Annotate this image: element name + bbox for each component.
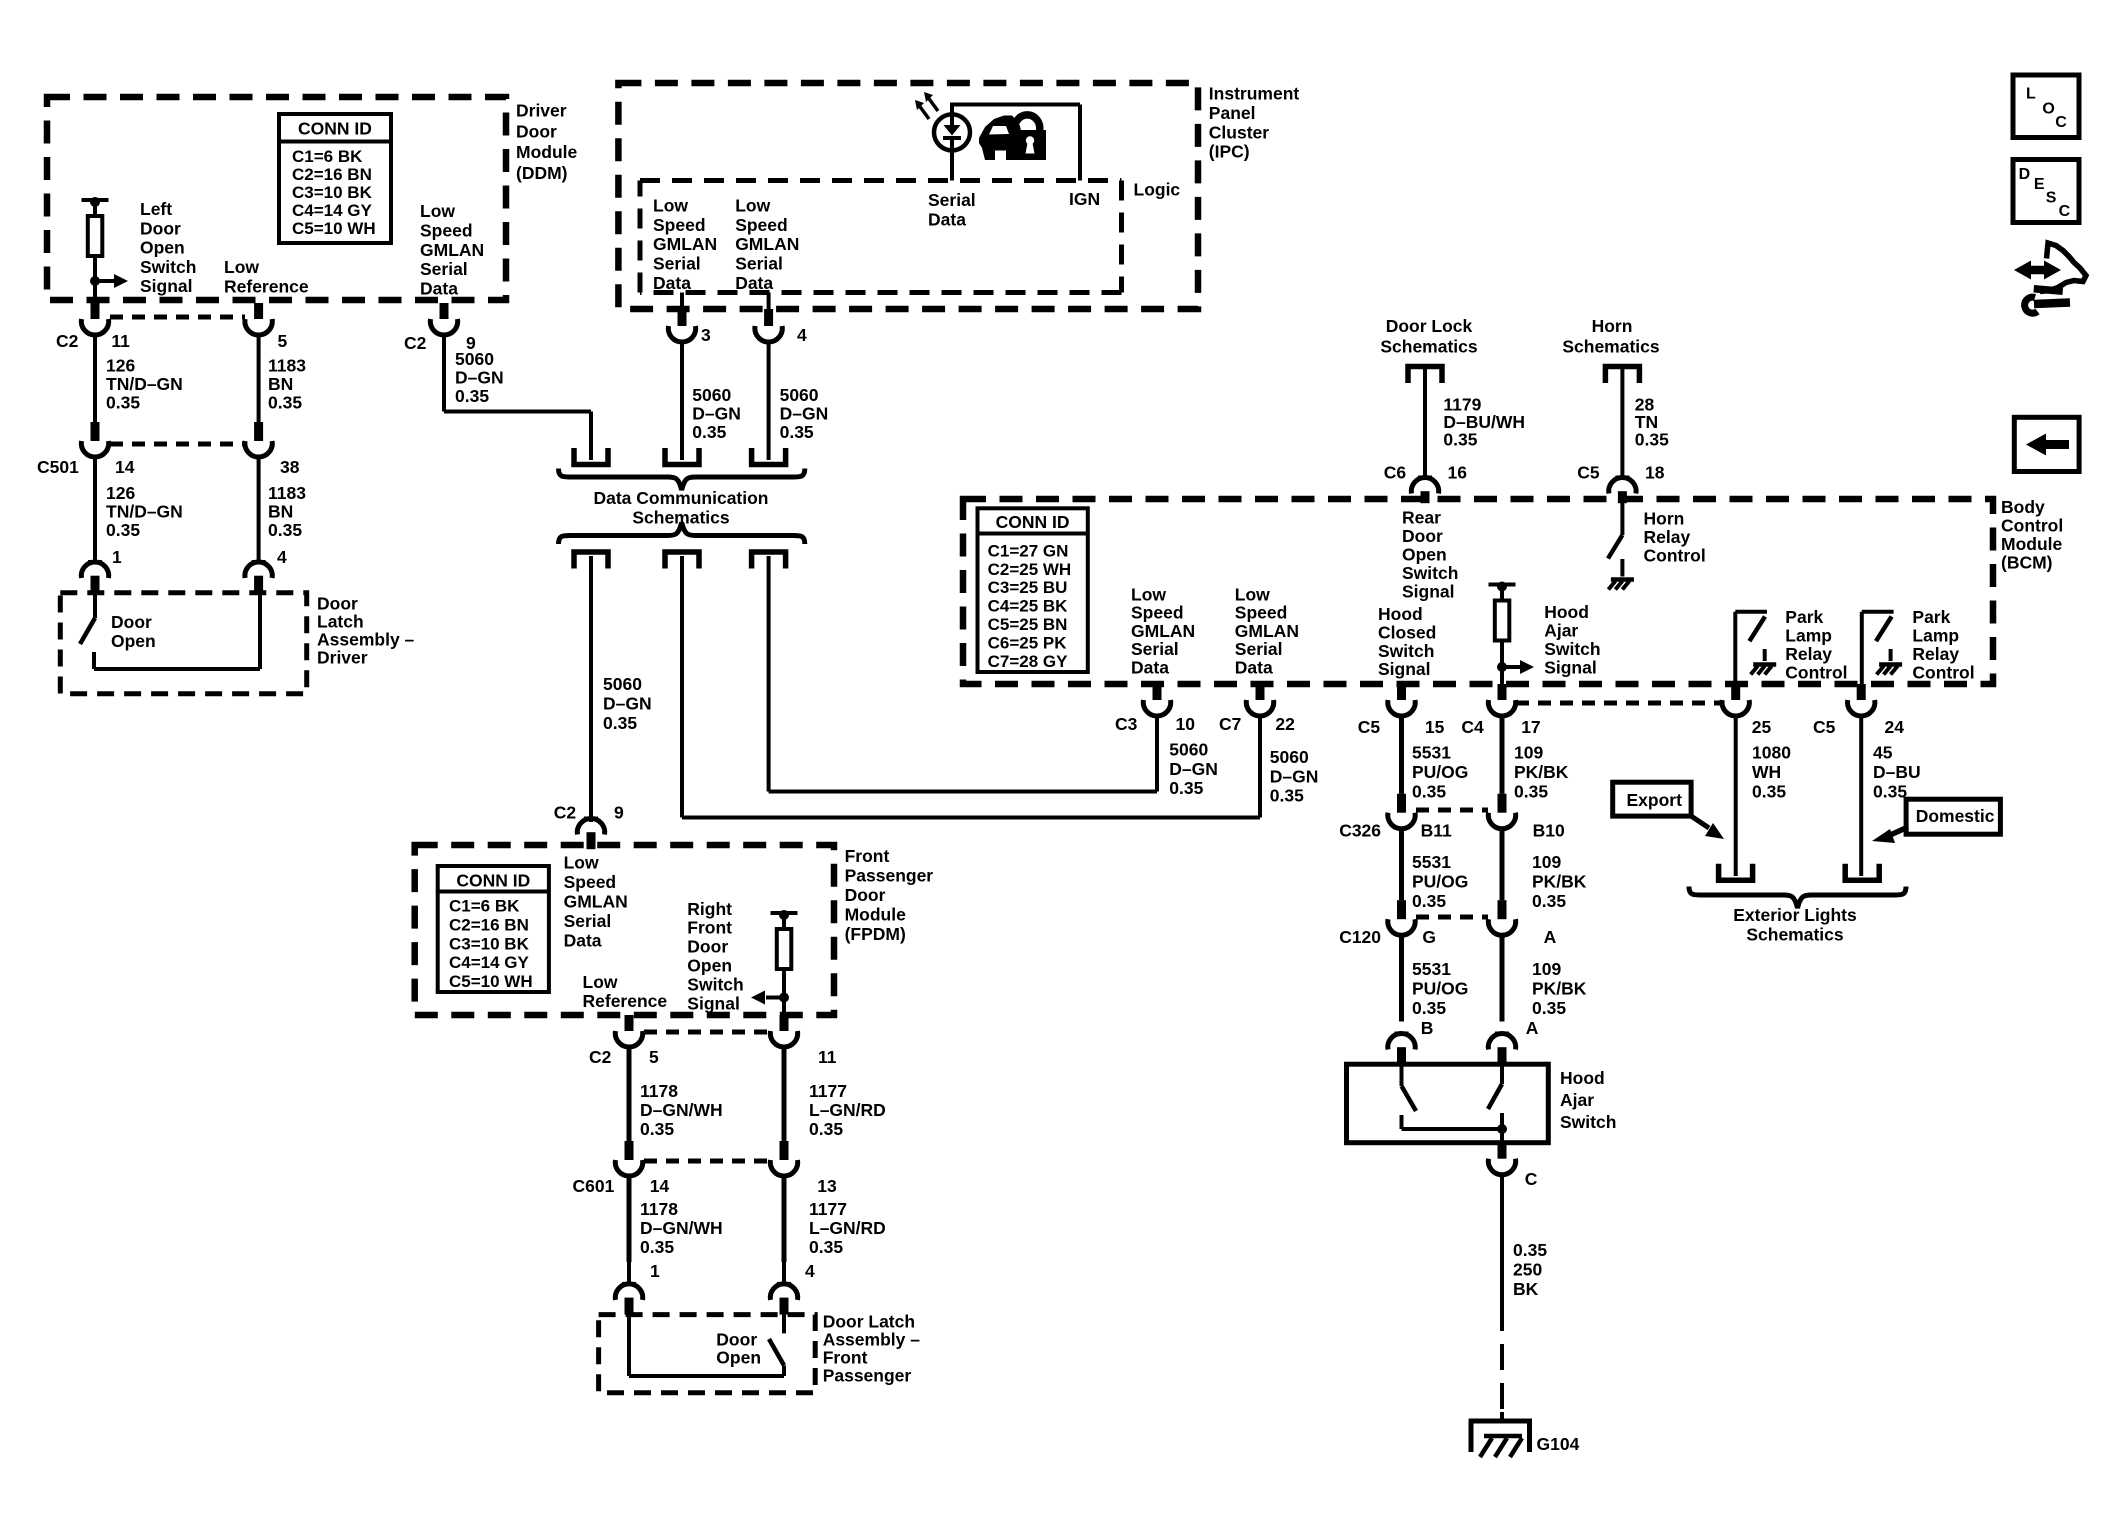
CONN ID table (BCM) — [978, 508, 1088, 672]
svg-text:C6=25 PK: C6=25 PK — [988, 633, 1068, 652]
module box: Instrument Panel Cluster (IPC) — [618, 83, 1198, 309]
svg-text:A: A — [1526, 1018, 1539, 1038]
connector C5 pin 18 (BCM) — [1615, 476, 1629, 480]
svg-text:18: 18 — [1645, 463, 1665, 483]
icon box LOC — [2013, 75, 2079, 138]
svg-text:Horn: Horn — [1592, 316, 1633, 336]
svg-text:Schematics: Schematics — [1380, 337, 1478, 357]
svg-text:15: 15 — [1425, 717, 1445, 737]
wire 1183 BN C501 to latch — [257, 457, 261, 541]
svg-text:Low: Low — [420, 201, 455, 221]
connector pin 4 (driver latch) — [252, 560, 266, 564]
svg-text:Passenger: Passenger — [823, 1365, 912, 1385]
in-line connector C601 pin 13 — [780, 1141, 789, 1160]
svg-text:0.35: 0.35 — [692, 422, 726, 442]
ground G104 — [1469, 1419, 1532, 1424]
svg-text:BN: BN — [268, 502, 293, 522]
wire bus to BCM C3 pin10 — [767, 556, 771, 792]
icon: car with lock (security indicator) — [979, 115, 1046, 160]
svg-text:Switch: Switch — [1560, 1112, 1616, 1132]
svg-text:CONN ID: CONN ID — [996, 512, 1070, 532]
svg-text:1: 1 — [650, 1261, 660, 1281]
svg-text:GMLAN: GMLAN — [735, 234, 799, 254]
off-page tab exterior 1 — [1719, 864, 1753, 881]
connector pin C (hood ajar switch) — [1498, 1143, 1507, 1159]
svg-text:0.35: 0.35 — [1169, 778, 1203, 798]
svg-text:PU/OG: PU/OG — [1412, 872, 1468, 892]
svg-text:D: D — [2019, 166, 2031, 183]
brace lower: Data Communication Schematics — [559, 523, 805, 545]
svg-text:C: C — [1525, 1169, 1538, 1189]
svg-text:Switch: Switch — [1544, 639, 1600, 659]
connector C3 pin 10 (BCM bottom) — [1153, 684, 1162, 700]
wire 250 BK to G104 — [1500, 1175, 1504, 1305]
svg-text:5531: 5531 — [1412, 852, 1451, 872]
LED indicator (security telltale) — [934, 114, 970, 150]
svg-text:Reference: Reference — [224, 276, 309, 296]
connector pin 1 (driver latch) — [88, 560, 102, 564]
svg-text:Door: Door — [140, 218, 181, 238]
wire 1080 WH to exterior lights — [1734, 716, 1738, 876]
svg-text:Low: Low — [583, 972, 618, 992]
svg-text:1183: 1183 — [268, 356, 306, 376]
svg-text:Serial: Serial — [653, 254, 701, 274]
svg-text:Serial: Serial — [735, 254, 783, 274]
svg-text:Control: Control — [1912, 663, 1974, 683]
svg-text:Export: Export — [1627, 790, 1683, 810]
dashed connector link C4 17-25 — [1516, 701, 1722, 706]
svg-text:0.35: 0.35 — [1270, 786, 1304, 806]
wire 126 TN/D-GN C501 to latch — [93, 457, 97, 541]
svg-text:(BCM): (BCM) — [2001, 553, 2053, 573]
svg-text:Door: Door — [845, 885, 886, 905]
connector C2 pin 9 (FPDM top) — [584, 817, 598, 821]
svg-text:0.35: 0.35 — [1873, 782, 1907, 802]
in-line connector C326 pin B11 — [1397, 794, 1406, 813]
svg-text:A: A — [1544, 927, 1557, 947]
svg-text:11: 11 — [111, 331, 130, 351]
svg-text:Panel: Panel — [1209, 103, 1256, 123]
wire 1177 L-GN/RD to C601 — [782, 1047, 787, 1141]
svg-text:C7: C7 — [1219, 714, 1241, 734]
svg-text:1177: 1177 — [809, 1199, 847, 1219]
svg-text:Module: Module — [845, 905, 907, 925]
svg-text:Low: Low — [653, 195, 688, 215]
svg-text:Door: Door — [687, 937, 728, 957]
svg-text:S: S — [2046, 190, 2057, 207]
svg-text:Park: Park — [1912, 607, 1950, 627]
svg-text:Low: Low — [735, 195, 770, 215]
svg-text:0.35: 0.35 — [1443, 429, 1477, 449]
svg-text:Data: Data — [564, 931, 602, 951]
svg-text:Data: Data — [1131, 658, 1169, 678]
svg-text:Exterior Lights: Exterior Lights — [1733, 905, 1857, 925]
off-page tab: Horn Schematics — [1605, 367, 1639, 384]
svg-text:Door: Door — [1402, 526, 1443, 546]
svg-text:Hood: Hood — [1544, 602, 1589, 622]
svg-text:D–GN/WH: D–GN/WH — [640, 1218, 723, 1238]
wire 109 PK/BK C326 to C120 — [1500, 829, 1505, 901]
in-line connector C601 pin 14 — [625, 1141, 634, 1160]
svg-text:0.35: 0.35 — [1412, 782, 1446, 802]
wire 1179 D-BU/WH — [1423, 366, 1427, 478]
wire IPC pin 4 — [767, 293, 771, 310]
svg-text:GMLAN: GMLAN — [564, 892, 628, 912]
svg-text:Speed: Speed — [653, 215, 706, 235]
svg-text:5060: 5060 — [455, 349, 494, 369]
svg-text:4: 4 — [277, 547, 287, 567]
park lamp relay control 2 (BCM) — [1860, 612, 1864, 684]
svg-text:Relay: Relay — [1785, 644, 1832, 664]
svg-text:0.35: 0.35 — [1514, 782, 1548, 802]
svg-text:C3=10 BK: C3=10 BK — [449, 934, 530, 953]
svg-text:Data: Data — [1235, 658, 1273, 678]
svg-text:Passenger: Passenger — [845, 866, 934, 886]
svg-text:0.35: 0.35 — [1513, 1240, 1547, 1260]
svg-text:22: 22 — [1275, 714, 1295, 734]
connector C6 pin 16 (BCM) — [1418, 476, 1432, 480]
connector C2 pin 5 (DDM) — [254, 303, 263, 319]
svg-text:C5: C5 — [1358, 717, 1381, 737]
connector pin A (hood ajar switch) — [1495, 1032, 1509, 1036]
wire 109 PK/BK C120 to switch — [1500, 935, 1505, 1021]
svg-text:GMLAN: GMLAN — [653, 234, 717, 254]
svg-text:Control: Control — [2001, 516, 2063, 536]
svg-text:Switch: Switch — [140, 257, 196, 277]
connector pin B (hood ajar switch) — [1395, 1032, 1409, 1036]
svg-text:1183: 1183 — [268, 483, 306, 503]
svg-text:GMLAN: GMLAN — [1235, 621, 1299, 641]
svg-text:TN/D–GN: TN/D–GN — [106, 502, 183, 522]
svg-text:13: 13 — [817, 1176, 837, 1196]
wire 126 TN/D-GN pin11 to C501 — [93, 335, 97, 422]
callout box Domestic — [1906, 799, 2000, 834]
svg-text:C4=25 BK: C4=25 BK — [988, 597, 1069, 616]
svg-text:Door: Door — [111, 612, 152, 632]
wire 1178 D-GN/WH to C601 — [627, 1047, 632, 1141]
svg-text:Ajar: Ajar — [1544, 621, 1578, 641]
arrow Export to wire — [1691, 816, 1709, 828]
svg-text:Schematics: Schematics — [1746, 924, 1844, 944]
wire bus to FPDM pin9 — [589, 556, 593, 822]
svg-text:Lamp: Lamp — [1785, 626, 1832, 646]
junction dot + right arrow: Left Door Open Switch Signal — [90, 276, 100, 286]
svg-text:0.35: 0.35 — [780, 422, 814, 442]
svg-text:10: 10 — [1176, 714, 1196, 734]
off-page tab (bus bottom 3) — [752, 552, 786, 569]
module box: Body Control Module (BCM) — [963, 499, 1993, 684]
svg-text:C2: C2 — [404, 333, 427, 353]
svg-text:0.35: 0.35 — [106, 520, 140, 540]
svg-text:PU/OG: PU/OG — [1412, 979, 1468, 999]
wire 1177 L-GN/RD to latch — [782, 1176, 787, 1262]
svg-text:BN: BN — [268, 374, 293, 394]
svg-text:Serial: Serial — [564, 911, 612, 931]
svg-text:D–GN: D–GN — [780, 404, 829, 424]
svg-text:0.35: 0.35 — [268, 520, 302, 540]
svg-text:1: 1 — [112, 547, 122, 567]
icon box DESC — [2013, 160, 2079, 223]
svg-text:Open: Open — [140, 238, 185, 258]
svg-text:0.35: 0.35 — [640, 1237, 674, 1257]
svg-text:Control: Control — [1785, 663, 1847, 683]
svg-text:1080: 1080 — [1752, 743, 1791, 763]
svg-text:45: 45 — [1873, 743, 1893, 763]
svg-text:C5=10 WH: C5=10 WH — [292, 219, 376, 238]
svg-text:5: 5 — [278, 331, 288, 351]
wire 5060 D-GN pin9 elbow to data bus — [442, 335, 446, 412]
svg-text:1178: 1178 — [640, 1081, 678, 1101]
svg-text:Door Lock: Door Lock — [1386, 316, 1473, 336]
dashed connector link C2 pins 11-5 — [110, 315, 245, 320]
svg-text:C2: C2 — [554, 803, 577, 823]
in-line connector C120 pin A — [1498, 900, 1507, 919]
switch: door open (passenger latch) — [627, 1315, 631, 1376]
svg-text:14: 14 — [115, 457, 135, 477]
dashed connector link C501 — [110, 442, 245, 447]
svg-text:Data: Data — [735, 273, 773, 293]
svg-text:Reference: Reference — [583, 991, 668, 1011]
svg-text:Ajar: Ajar — [1560, 1090, 1594, 1110]
svg-text:C601: C601 — [573, 1176, 615, 1196]
wire: LED to Serial Data terminal — [950, 150, 954, 180]
icon: component locator (double arrow, outline, wrench) — [2014, 243, 2086, 313]
in-line connector C120 pin G — [1397, 900, 1406, 919]
wire 5531 PU/OG BCM to C326 — [1399, 716, 1404, 794]
svg-text:(DDM): (DDM) — [516, 163, 568, 183]
svg-text:Hood: Hood — [1378, 604, 1423, 624]
svg-text:C501: C501 — [37, 457, 79, 477]
svg-text:C1=6 BK: C1=6 BK — [292, 147, 363, 166]
resistor: right front door open switch pull-up — [771, 911, 798, 915]
switch blades (hood ajar switch) — [1400, 1064, 1404, 1086]
svg-text:0.35: 0.35 — [1412, 998, 1446, 1018]
svg-text:Low: Low — [224, 257, 259, 277]
CONN ID table (DDM) — [279, 114, 391, 243]
svg-text:5531: 5531 — [1412, 959, 1451, 979]
svg-text:14: 14 — [650, 1176, 670, 1196]
svg-text:Signal: Signal — [1378, 659, 1431, 679]
svg-text:CONN ID: CONN ID — [456, 871, 530, 891]
wire 5060 D-GN pin3 to bus — [680, 342, 684, 460]
svg-text:250: 250 — [1513, 1259, 1542, 1279]
svg-text:Switch: Switch — [1378, 641, 1434, 661]
connector C2 pin 11 (FPDM bottom) — [780, 1015, 789, 1031]
svg-text:0.35: 0.35 — [455, 386, 489, 406]
svg-text:Speed: Speed — [735, 215, 788, 235]
wire bus to BCM C7 pin22 — [680, 556, 684, 818]
svg-text:C5: C5 — [1813, 717, 1836, 737]
svg-text:0.35: 0.35 — [640, 1119, 674, 1139]
svg-text:Front: Front — [845, 846, 890, 866]
connector C2 pin 11 (DDM) — [91, 303, 100, 319]
svg-text:B10: B10 — [1533, 821, 1565, 841]
connector C4 pin 17 (BCM bottom) — [1498, 684, 1507, 700]
svg-text:5060: 5060 — [1270, 747, 1309, 767]
svg-text:Low: Low — [1235, 584, 1270, 604]
module box: Door Latch Assembly - Front Passenger — [599, 1315, 816, 1393]
svg-text:C2=16 BN: C2=16 BN — [449, 915, 529, 934]
svg-text:Horn: Horn — [1644, 508, 1685, 528]
svg-text:D–GN: D–GN — [1169, 759, 1218, 779]
svg-text:Low: Low — [564, 853, 599, 873]
dashed connector link C2 5-11 — [644, 1030, 770, 1035]
svg-text:Schematics: Schematics — [1562, 337, 1660, 357]
svg-text:C6: C6 — [1384, 463, 1407, 483]
svg-text:D–GN/WH: D–GN/WH — [640, 1100, 723, 1120]
svg-text:38: 38 — [280, 457, 300, 477]
svg-text:5060: 5060 — [603, 674, 642, 694]
svg-text:0.35: 0.35 — [809, 1237, 843, 1257]
svg-text:Serial: Serial — [1131, 639, 1179, 659]
module box: Door Latch Assembly - Driver — [60, 593, 306, 694]
svg-text:1177: 1177 — [809, 1081, 847, 1101]
svg-text:B: B — [1421, 1018, 1434, 1038]
svg-text:Open: Open — [716, 1347, 761, 1367]
svg-text:(IPC): (IPC) — [1209, 142, 1250, 162]
svg-text:126: 126 — [106, 483, 135, 503]
svg-text:Hood: Hood — [1560, 1068, 1605, 1088]
connector C7 pin 22 (BCM bottom) — [1256, 684, 1265, 700]
svg-text:C326: C326 — [1339, 821, 1381, 841]
svg-text:C5=10 WH: C5=10 WH — [449, 972, 533, 991]
svg-text:Speed: Speed — [1131, 603, 1184, 623]
svg-text:CONN ID: CONN ID — [298, 119, 372, 139]
wire: resistor to DDM edge — [93, 270, 97, 303]
svg-text:Data: Data — [928, 209, 966, 229]
svg-text:L–GN/RD: L–GN/RD — [809, 1218, 886, 1238]
svg-text:5: 5 — [649, 1047, 659, 1067]
svg-text:Data Communication: Data Communication — [593, 488, 768, 508]
svg-text:C2: C2 — [56, 331, 79, 351]
svg-text:Signal: Signal — [1402, 581, 1455, 601]
wire 5531 PU/OG C326 to C120 — [1399, 829, 1404, 901]
svg-text:0.35: 0.35 — [268, 393, 302, 413]
svg-text:0.35: 0.35 — [1412, 891, 1446, 911]
off-page tab (bus bottom 2) — [665, 552, 699, 569]
svg-text:1178: 1178 — [640, 1199, 678, 1219]
svg-text:C1=27 GN: C1=27 GN — [988, 541, 1069, 560]
svg-text:TN/D–GN: TN/D–GN — [106, 374, 183, 394]
off-page tab (bus top, wire from DDM pin9) — [574, 448, 608, 465]
svg-text:5060: 5060 — [692, 385, 731, 405]
svg-text:Park: Park — [1785, 607, 1823, 627]
svg-text:Latch: Latch — [317, 612, 364, 632]
svg-text:C5=25 BN: C5=25 BN — [988, 615, 1068, 634]
connector C5 pin 24 (BCM bottom) — [1857, 684, 1866, 700]
svg-text:109: 109 — [1532, 852, 1561, 872]
svg-text:17: 17 — [1521, 717, 1540, 737]
svg-text:Data: Data — [653, 273, 691, 293]
svg-text:Low: Low — [1131, 584, 1166, 604]
svg-text:Driver: Driver — [516, 101, 567, 121]
svg-text:C3=10 BK: C3=10 BK — [292, 183, 373, 202]
svg-text:C120: C120 — [1339, 927, 1381, 947]
connector C2 pin 9 (DDM) — [440, 303, 449, 319]
svg-text:Door: Door — [317, 594, 358, 614]
svg-text:Switch: Switch — [687, 974, 743, 994]
svg-text:C2=16 BN: C2=16 BN — [292, 165, 372, 184]
in-line connector C501 pin 14 — [91, 422, 100, 441]
wire 1178 D-GN/WH to latch — [627, 1176, 632, 1262]
svg-text:PK/BK: PK/BK — [1532, 979, 1587, 999]
svg-text:109: 109 — [1532, 959, 1561, 979]
svg-text:C7=28 GY: C7=28 GY — [988, 652, 1069, 671]
svg-text:109: 109 — [1514, 743, 1543, 763]
svg-text:D–GN: D–GN — [1270, 766, 1319, 786]
connector C4 pin 25 (BCM bottom) — [1731, 684, 1740, 700]
svg-text:Open: Open — [111, 631, 156, 651]
dashed connector link C120 — [1416, 915, 1488, 920]
park lamp relay control 1 (BCM) — [1733, 612, 1737, 684]
svg-text:4: 4 — [797, 325, 807, 345]
wire 1183 BN pin5 to C501 — [257, 335, 261, 422]
svg-text:Cluster: Cluster — [1209, 122, 1269, 142]
svg-text:Signal: Signal — [140, 276, 193, 296]
svg-text:Right: Right — [687, 899, 732, 919]
svg-text:Logic: Logic — [1134, 180, 1181, 200]
svg-text:Front: Front — [687, 918, 732, 938]
wire 109 PK/BK BCM to C326 — [1500, 716, 1505, 794]
dashed connector link C326 — [1416, 808, 1488, 813]
svg-text:E: E — [2034, 176, 2045, 193]
connector C5 pin 15 (BCM bottom) — [1397, 684, 1406, 700]
wire 5531 PU/OG C120 to switch — [1399, 935, 1404, 1021]
svg-text:B11: B11 — [1421, 821, 1452, 841]
svg-text:4: 4 — [805, 1261, 815, 1281]
svg-text:D–GN: D–GN — [692, 404, 741, 424]
svg-text:Instrument: Instrument — [1209, 84, 1300, 104]
off-page tab exterior 2 — [1845, 864, 1879, 881]
wire 28 TN — [1620, 366, 1624, 478]
LED arrows — [927, 96, 938, 111]
svg-text:0.35: 0.35 — [603, 713, 637, 733]
svg-text:24: 24 — [1885, 717, 1905, 737]
svg-text:C4=14 GY: C4=14 GY — [449, 953, 530, 972]
dashed connector link C601 — [644, 1159, 770, 1164]
arrow Domestic to wire — [1888, 827, 1908, 836]
svg-text:3: 3 — [701, 325, 711, 345]
ground (horn relay) — [1611, 577, 1634, 582]
svg-text:PK/BK: PK/BK — [1514, 762, 1569, 782]
svg-text:PU/OG: PU/OG — [1412, 762, 1468, 782]
connector pin 1 (passenger latch) — [622, 1282, 636, 1286]
svg-text:Module: Module — [2001, 534, 2063, 554]
svg-text:D–BU: D–BU — [1873, 762, 1921, 782]
svg-text:G104: G104 — [1537, 1434, 1580, 1454]
svg-text:PK/BK: PK/BK — [1532, 872, 1587, 892]
off-page tab: Door Lock Schematics — [1408, 367, 1442, 384]
svg-text:GMLAN: GMLAN — [1131, 621, 1195, 641]
svg-text:Speed: Speed — [564, 872, 617, 892]
svg-text:Module: Module — [516, 142, 578, 162]
callout box Export — [1613, 782, 1691, 816]
svg-text:GMLAN: GMLAN — [420, 240, 484, 260]
wire: LED top to IGN terminal — [950, 105, 954, 115]
svg-text:Open: Open — [687, 956, 732, 976]
svg-text:0.35: 0.35 — [106, 393, 140, 413]
svg-text:C3=25 BU: C3=25 BU — [988, 578, 1068, 597]
CONN ID table (FPDM) — [438, 866, 549, 992]
svg-text:Serial: Serial — [420, 259, 468, 279]
module box: Front Passenger Door Module (FPDM) — [415, 845, 834, 1015]
svg-text:Rear: Rear — [1402, 507, 1441, 527]
svg-text:11: 11 — [818, 1047, 837, 1067]
svg-text:C4=14 GY: C4=14 GY — [292, 201, 373, 220]
resistor: hood ajar switch signal pull-up — [1489, 583, 1516, 587]
svg-text:Speed: Speed — [420, 220, 473, 240]
svg-text:Data: Data — [420, 279, 458, 299]
